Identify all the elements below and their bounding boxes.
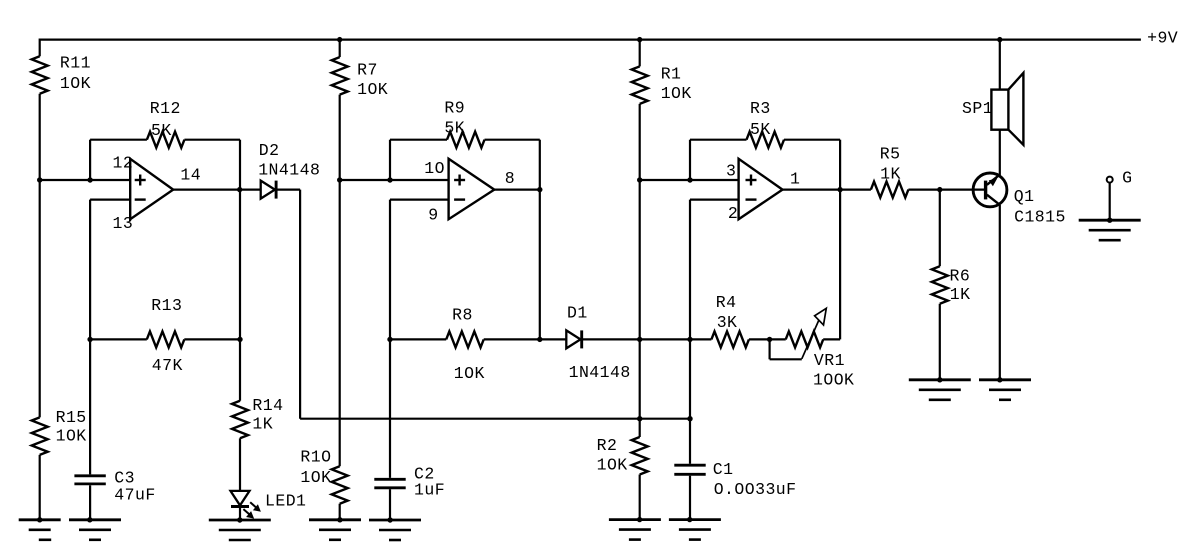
svg-text:1N4148: 1N4148	[258, 160, 320, 179]
wire: op3 inverting input	[690, 200, 739, 340]
pin 3	[726, 162, 736, 181]
resistor R5 1K	[871, 144, 909, 197]
svg-text:R4: R4	[716, 293, 737, 312]
wire: LED1 to ground	[239, 507, 241, 521]
wire: op1 out down to R13	[239, 190, 241, 340]
svg-text:3: 3	[726, 162, 736, 181]
resistor R12	[147, 99, 185, 148]
svg-text:5K: 5K	[444, 119, 465, 138]
wire: feedback top right seg op2	[485, 139, 540, 141]
svg-text:LED1: LED1	[265, 491, 306, 510]
svg-text:1OK: 1OK	[357, 80, 388, 99]
node: op3 + / R1 / R2	[637, 177, 642, 182]
resistor R9 5K	[444, 99, 484, 148]
potentiometer VR1 100K	[770, 308, 855, 389]
svg-text:2: 2	[728, 204, 738, 223]
wire: R4 to VR1	[749, 338, 786, 340]
ground (R2)	[609, 517, 661, 540]
svg-text:R7: R7	[357, 61, 378, 80]
svg-text:14: 14	[180, 165, 201, 184]
svg-text:R11: R11	[60, 54, 91, 73]
svg-text:R6: R6	[950, 266, 971, 285]
wire: C2 top	[389, 339, 391, 478]
wire: C3 bottom to ground	[89, 485, 91, 520]
diode D1 1N4148	[566, 304, 630, 382]
node: feedback / + input op1	[87, 177, 92, 182]
ground (C2)	[369, 517, 421, 540]
wire: rail to R1	[639, 40, 641, 67]
node: R5 / R6 / base	[937, 187, 942, 192]
wire: feedback left vertical op1	[89, 140, 91, 180]
node: rail junction SP1	[997, 37, 1002, 42]
ground (R6)	[909, 377, 971, 400]
svg-text:D2: D2	[259, 141, 280, 160]
svg-text:5K: 5K	[750, 120, 771, 139]
svg-text:R9: R9	[444, 99, 465, 118]
wire: C1 bottom to ground	[689, 476, 691, 520]
wire: feedback left vertical op3	[689, 140, 691, 180]
wire: C3 top	[89, 339, 91, 474]
svg-text:1N4148: 1N4148	[569, 363, 631, 382]
svg-text:+9V: +9V	[1147, 29, 1178, 48]
ground (R10)	[309, 517, 361, 540]
wire: feedback top right seg op1	[184, 139, 240, 141]
resistor R15	[32, 408, 87, 455]
+9V power rail wire	[40, 38, 1141, 40]
svg-text:R12: R12	[150, 99, 181, 118]
node: rail junction R1	[637, 37, 642, 42]
ground (G)	[1079, 218, 1141, 241]
svg-text:VR1: VR1	[814, 351, 845, 370]
pin 9	[428, 205, 438, 224]
node: op1 output / R14 branch	[237, 187, 242, 192]
svg-text:R5: R5	[880, 144, 901, 163]
wire: op2 output	[494, 189, 540, 191]
svg-text:1OK: 1OK	[454, 364, 485, 383]
wire: feedback top left seg op3	[690, 139, 747, 141]
svg-text:47uF: 47uF	[114, 485, 155, 504]
svg-text:1: 1	[790, 169, 800, 188]
svg-text:Q1: Q1	[1014, 187, 1035, 206]
svg-text:1K: 1K	[950, 285, 971, 304]
capacitor C3 47uF	[74, 469, 155, 505]
wire: down to R10	[339, 180, 341, 466]
svg-text:R14: R14	[252, 396, 283, 415]
transistor Q1 C1815	[973, 173, 1066, 227]
wire: speaker to Q1 collector	[999, 130, 1001, 176]
wire: op3 out down to VR1	[839, 190, 841, 340]
wire: R2 to ground	[639, 475, 641, 520]
svg-text:12: 12	[113, 154, 134, 173]
resistor R2 10K	[597, 436, 648, 474]
wire: rail corner down to R11	[39, 39, 41, 57]
node: R13 right / R14 top	[237, 337, 242, 342]
pin 1	[790, 169, 800, 188]
svg-text:1uF: 1uF	[414, 481, 445, 500]
wire: feedback top left seg op1	[90, 139, 147, 141]
wire: down to R15	[39, 180, 41, 417]
pin 10	[424, 159, 445, 178]
op-amp U1C	[739, 159, 783, 219]
node: column / lower line	[637, 416, 642, 421]
wire: rail to R7	[339, 40, 341, 58]
resistor R6 1K	[932, 266, 971, 304]
wire: feedback left vertical op2	[389, 140, 391, 180]
wire: R10 to ground	[339, 504, 341, 520]
resistor R13 47K	[147, 296, 185, 375]
ground (Q1 emitter)	[979, 377, 1031, 400]
node: op2 + / R7 / R10	[337, 177, 342, 182]
ground (C1)	[669, 517, 721, 540]
svg-text:13: 13	[113, 214, 134, 233]
wire: R13 left seg	[90, 338, 147, 340]
svg-text:C1: C1	[713, 460, 734, 479]
wire: R6 to ground	[939, 304, 941, 380]
svg-text:1K: 1K	[880, 164, 901, 183]
capacitor C2 1uF	[374, 465, 445, 500]
node: R4 / VR1 wiper	[767, 337, 772, 342]
wire: op1 inverting input	[90, 200, 130, 340]
node: rail junction R7	[337, 37, 342, 42]
pin 13	[113, 214, 134, 233]
wire: C2 bottom to ground	[389, 489, 391, 520]
node: R8 left / C2 / op2 inv	[387, 337, 392, 342]
pin 12	[113, 154, 134, 173]
resistor R14 1K	[232, 396, 283, 438]
wire: R8 right seg	[484, 338, 567, 340]
wire: op2 out down to R8	[539, 190, 541, 340]
node: R13 left / C3 / op1 inv	[87, 337, 92, 342]
svg-text:1O: 1O	[424, 159, 445, 178]
capacitor C1 0.0033uF	[674, 460, 796, 499]
svg-text:1OK: 1OK	[661, 84, 692, 103]
svg-text:1OK: 1OK	[597, 456, 628, 475]
resistor R10 10K	[300, 448, 347, 504]
svg-text:R8: R8	[452, 305, 473, 324]
op-amp U1B	[449, 159, 495, 219]
terminal G	[1107, 169, 1133, 188]
wire: D2 to C1/R2 node horizontal	[300, 418, 690, 420]
wire: D1 cathode to R4	[582, 338, 712, 340]
svg-text:R1: R1	[661, 65, 682, 84]
wire: R15 to ground	[39, 455, 41, 520]
svg-text:1OK: 1OK	[300, 468, 331, 487]
wire: feedback top left seg op2	[390, 139, 447, 141]
diode D2 1N4148	[258, 141, 320, 199]
ground (C3)	[69, 517, 121, 540]
+9V label	[1147, 29, 1178, 48]
wire: op2 inverting input	[390, 200, 449, 340]
node: feedback / + input op2	[387, 177, 392, 182]
wire: op2 noninverting input	[340, 179, 449, 181]
pin 8	[505, 169, 515, 188]
node: mid line / op3 inv column	[687, 337, 692, 342]
svg-text:R1O: R1O	[300, 448, 331, 467]
node: op1 + input / R11 / R15	[37, 177, 42, 182]
svg-text:9: 9	[428, 205, 438, 224]
svg-text:R13: R13	[151, 296, 182, 315]
wire: op1 output	[173, 189, 261, 191]
node: op2 output	[537, 187, 542, 192]
node: feedback / + input op3	[687, 177, 692, 182]
wire: feedback right vertical op2	[539, 140, 541, 190]
svg-text:C1815: C1815	[1014, 208, 1066, 227]
svg-text:R3: R3	[750, 99, 771, 118]
svg-text:3K: 3K	[717, 313, 738, 332]
wire: R14 top	[239, 339, 241, 400]
svg-text:SP1: SP1	[962, 99, 993, 118]
wire: R5 to Q1 base	[908, 189, 984, 191]
svg-text:5K: 5K	[151, 121, 172, 140]
wire: op3 output	[783, 189, 871, 191]
pin 14	[180, 165, 201, 184]
wire: R1 to op3 + input	[639, 104, 641, 180]
resistor R1 10K	[632, 65, 692, 104]
resistor R11	[32, 54, 91, 94]
wire: R14 to LED1	[239, 438, 241, 491]
wire: op1 noninverting input	[40, 179, 131, 181]
svg-text:R15: R15	[56, 408, 87, 427]
pin 2	[728, 204, 738, 223]
op-amp U1A	[130, 159, 173, 219]
svg-text:1OK: 1OK	[60, 74, 91, 93]
svg-text:1OOK: 1OOK	[813, 371, 854, 390]
svg-text:D1: D1	[567, 304, 588, 323]
svg-text:47K: 47K	[152, 356, 183, 375]
LED LED1	[231, 491, 307, 519]
svg-text:1OK: 1OK	[56, 427, 87, 446]
node: op3 inv / lower line / C1	[687, 416, 692, 421]
svg-text:G: G	[1122, 169, 1132, 188]
svg-text:1K: 1K	[252, 415, 273, 434]
resistor R8 10K	[446, 305, 485, 383]
wire: Q1 emitter to ground	[999, 205, 1001, 380]
wire: C1 top	[689, 419, 691, 464]
wire: G to ground	[1109, 183, 1111, 221]
wire: down to R6	[939, 190, 941, 267]
svg-text:O.OO33uF: O.OO33uF	[714, 480, 797, 499]
wire: R13 right seg	[184, 338, 240, 340]
wire: R7 to op2 + input	[339, 95, 341, 180]
svg-text:8: 8	[505, 169, 515, 188]
node: R8 right / op2 out	[537, 337, 542, 342]
wire: R8 left seg	[390, 338, 446, 340]
svg-text:R2: R2	[597, 436, 618, 455]
ground (LED1)	[209, 517, 271, 540]
resistor R4 3K	[711, 293, 749, 347]
wire: op3 inv column down	[689, 339, 691, 418]
wire: R1R2 column down	[639, 180, 641, 437]
wire: feedback right vertical op1	[239, 140, 241, 190]
wire: op3 noninverting input	[640, 179, 739, 181]
resistor R3 5K	[747, 99, 785, 148]
node: mid line / R1-R2 column	[637, 337, 642, 342]
wire: feedback top right seg op3	[784, 139, 840, 141]
resistor R7 10K	[332, 57, 388, 99]
speaker SP1	[962, 39, 1023, 145]
node: op3 output / VR1 branch	[837, 187, 842, 192]
wire: feedback right vertical op3	[839, 140, 841, 190]
ground (R15)	[19, 517, 61, 540]
wire: D2 cathode right and down	[276, 190, 300, 419]
wire: R11 to noninverting node	[39, 94, 41, 180]
